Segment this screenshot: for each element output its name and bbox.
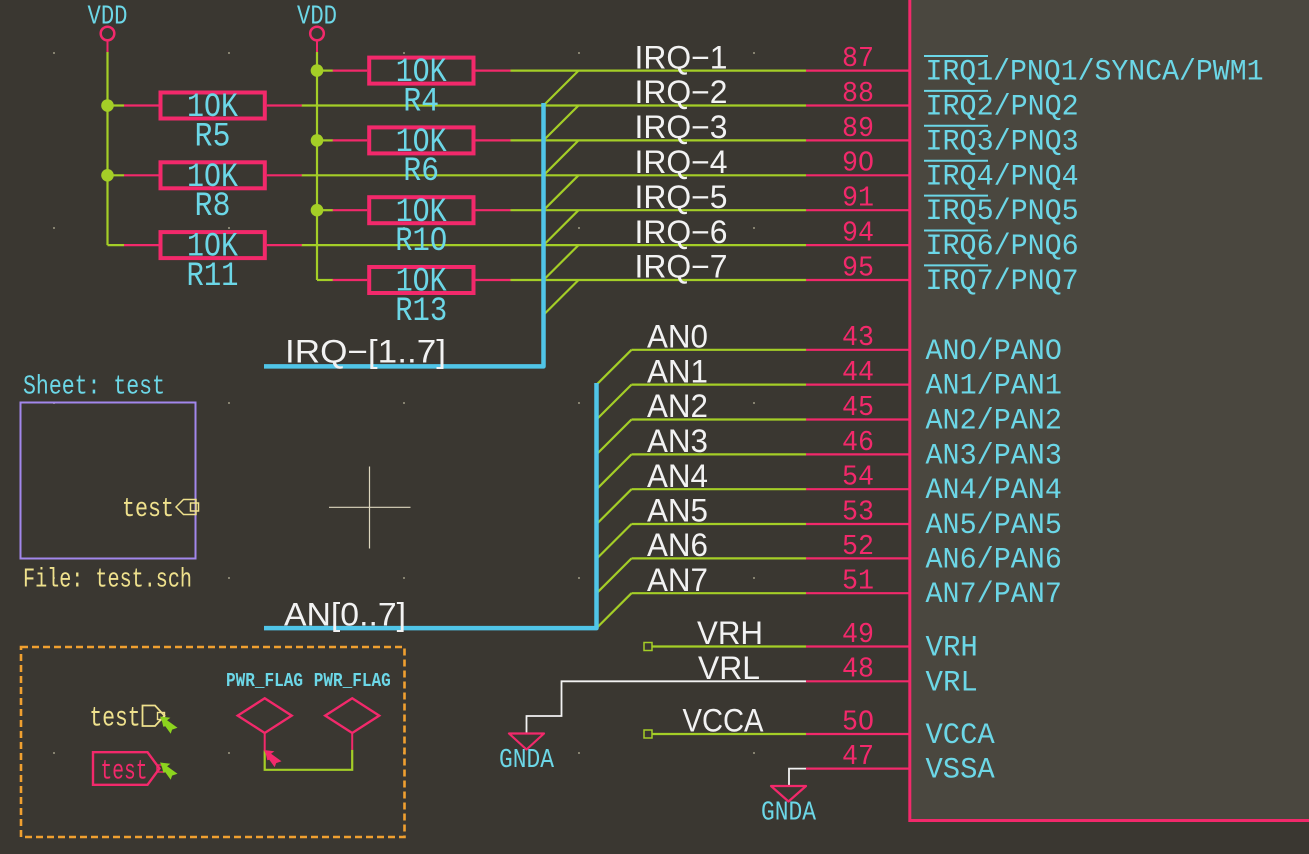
svg-text:47: 47 [842,740,874,773]
resistor R5 10K [124,89,302,156]
hierarchical sheet test [21,403,196,559]
wire IRQ-7 [511,279,807,281]
svg-text:44: 44 [842,356,874,389]
crosshair cursor [329,467,411,549]
svg-text:45: 45 [842,391,874,424]
svg-text:91: 91 [842,182,874,215]
pin 47 VSSA [806,740,995,788]
wire IRQ-4 [302,174,807,176]
wire VRH [652,645,806,647]
svg-text:IRQ2/PNQ2: IRQ2/PNQ2 [926,91,1079,125]
svg-text:AN5/PAN5: AN5/PAN5 [926,509,1062,543]
svg-text:AN3: AN3 [647,423,708,459]
pin 89 IRQ3/PNQ3 [806,112,1079,160]
wire IRQ-1 [511,69,807,71]
svg-text:AN3/PAN3: AN3/PAN3 [926,439,1062,473]
wire AN3 [632,453,807,455]
svg-text:VDD: VDD [88,3,128,33]
bus entry AN1 [597,385,632,420]
power symbol VDD (left) [88,3,128,52]
bus entry IRQ-7 [544,280,579,315]
svg-text:AN5: AN5 [647,493,708,529]
ground symbol GNDA (right) [761,786,817,829]
wire IRQ-2 [302,104,807,106]
pin 54 AN4/PAN4 [806,461,1062,509]
bus entry AN6 [597,558,632,593]
wire IRQ-6 [302,244,807,246]
pin 50 VCCA [806,705,995,753]
junction VDD/R5 [101,99,114,112]
resistor R10 10K [333,194,511,261]
svg-text:VRL: VRL [926,666,978,700]
pin 48 VRL [806,653,978,701]
bus entry IRQ-5 [544,210,579,245]
svg-text:AN4: AN4 [647,458,708,494]
resistor R11 10K [124,229,302,296]
cursor arrow (green, over global label) [160,763,178,780]
bus entry IRQ-3 [544,140,579,175]
bus entry AN4 [597,489,632,524]
svg-text:IRQ−5: IRQ−5 [635,179,728,215]
svg-text:AN2/PAN2: AN2/PAN2 [926,405,1062,439]
svg-text:9O: 9O [842,147,874,180]
resistor R8 10K [124,159,302,226]
bus entry AN0 [597,350,632,385]
pin 52 AN6/PAN6 [806,530,1062,578]
svg-text:95: 95 [842,251,874,284]
svg-text:R4: R4 [403,83,439,121]
power flag PWR_FLAG (right) [314,670,391,750]
wire VDD rail right [316,52,318,280]
pin 88 IRQ2/PNQ2 [806,77,1079,125]
svg-text:IRQ7/PNQ7: IRQ7/PNQ7 [926,265,1079,299]
svg-text:IRQ−2: IRQ−2 [635,74,728,110]
svg-text:VRH: VRH [926,632,978,666]
svg-text:test: test [101,757,148,788]
wire stub rail-R6 [317,139,333,141]
svg-text:AN1: AN1 [647,353,708,389]
svg-text:IRQ−6: IRQ−6 [635,214,728,250]
wire IRQ-3 [511,139,807,141]
svg-text:VRL: VRL [698,650,760,686]
svg-text:PWR_FLAG: PWR_FLAG [314,670,391,692]
svg-text:IRQ4/PNQ4: IRQ4/PNQ4 [926,160,1079,194]
wire AN7 [632,592,807,594]
wire AN1 [632,384,807,386]
power flag PWR_FLAG (left) [226,670,303,750]
svg-text:R13: R13 [395,293,447,331]
wire AN4 [632,488,807,490]
svg-text:R8: R8 [195,188,231,226]
svg-text:AN7: AN7 [647,562,708,598]
junction VDD/R8 [101,169,114,182]
svg-text:IRQ3/PNQ3: IRQ3/PNQ3 [926,125,1079,159]
svg-text:R5: R5 [195,118,231,156]
cursor arrow (green, over hierarchical label) [160,717,178,734]
wire stub rail-R13 [317,279,333,281]
cursor arrow (pink, on PWR_FLAG wire) [264,750,282,767]
svg-text:File: test.sch: File: test.sch [23,565,192,595]
wire stub rail-R8 [108,174,125,176]
resistor R6 10K [333,124,511,191]
bus entry IRQ-6 [544,245,579,280]
svg-text:51: 51 [842,565,874,598]
svg-text:IRQ−1: IRQ−1 [635,39,728,75]
wire VDD rail left [106,52,108,245]
bus entry IRQ-4 [544,175,579,210]
pin 95 IRQ7/PNQ7 [806,251,1079,299]
wire stub rail-R10 [317,209,333,211]
svg-text:GNDA: GNDA [499,746,555,776]
junction VDD/R6 [311,134,324,147]
wire stub rail-R5 [108,104,125,106]
bus entry AN2 [597,420,632,455]
svg-text:R6: R6 [403,153,439,191]
hierarchical label test [90,704,165,735]
svg-text:AN6/PAN6: AN6/PAN6 [926,543,1062,577]
sheet pin test [122,495,199,525]
wire IRQ-5 [511,209,807,211]
wire AN5 [632,523,807,525]
svg-text:IRQ−3: IRQ−3 [635,109,728,145]
resistor R13 10K [333,264,511,331]
wire between PWR_FLAGs [265,750,353,770]
svg-text:AN7/PAN7: AN7/PAN7 [926,578,1062,612]
pin 49 VRH [806,618,978,666]
bus entry IRQ-2 [544,106,579,141]
svg-text:IRQ6/PNQ6: IRQ6/PNQ6 [926,230,1079,264]
svg-text:AN1/PAN1: AN1/PAN1 [926,370,1062,404]
pin 90 IRQ4/PNQ4 [806,147,1079,195]
svg-text:GNDA: GNDA [761,799,817,829]
wire AN2 [632,418,807,420]
svg-text:5O: 5O [842,705,874,738]
wire VRL to GNDA [527,681,807,733]
wire VCCA [652,733,806,735]
svg-text:IRQ5/PNQ5: IRQ5/PNQ5 [926,195,1079,229]
svg-text:49: 49 [842,618,874,651]
svg-text:89: 89 [842,112,874,145]
pin 94 IRQ6/PNQ6 [806,217,1079,265]
wire AN0 [632,349,807,351]
pin 91 IRQ5/PNQ5 [806,182,1079,230]
power symbol VDD (right) [297,3,337,52]
svg-text:AN0: AN0 [647,319,708,355]
pin 51 AN7/PAN7 [806,565,1062,613]
selection box (dashed) [21,647,405,837]
svg-text:52: 52 [842,530,874,563]
unconnected end VCCA [644,730,652,738]
svg-text:46: 46 [842,426,874,459]
svg-text:ANO/PANO: ANO/PANO [926,335,1062,369]
bus entry AN3 [597,454,632,489]
svg-text:IRQ1/PNQ1/SYNCA/PWM1: IRQ1/PNQ1/SYNCA/PWM1 [926,56,1264,90]
svg-text:94: 94 [842,217,874,250]
svg-text:AN4/PAN4: AN4/PAN4 [926,474,1062,508]
svg-text:VSSA: VSSA [926,754,995,788]
svg-text:VRH: VRH [697,615,763,651]
resistor R4 10K [333,54,511,121]
svg-text:VCCA: VCCA [683,703,765,739]
svg-text:IRQ−4: IRQ−4 [635,144,728,180]
pin 87 IRQ1/PNQ1/SYNCA/PWM1 [806,42,1264,90]
bus AN[0..7] [264,383,597,628]
svg-text:88: 88 [842,77,874,110]
svg-text:AN2: AN2 [647,388,708,424]
svg-text:Sheet: test: Sheet: test [23,373,165,403]
svg-text:AN6: AN6 [647,527,708,563]
svg-text:IRQ−[1..7]: IRQ−[1..7] [285,334,446,370]
svg-text:54: 54 [842,461,874,494]
svg-text:43: 43 [842,321,874,354]
svg-text:R11: R11 [187,258,239,296]
svg-text:87: 87 [842,42,874,75]
global label test [93,752,164,787]
svg-text:VDD: VDD [297,3,337,33]
unconnected end VRH [644,643,652,651]
svg-text:48: 48 [842,653,874,686]
pin 53 AN5/PAN5 [806,495,1062,543]
ground symbol GNDA (left) [499,734,555,777]
junction VDD/R4 [311,64,324,77]
pin 45 AN2/PAN2 [806,391,1062,439]
pin 46 AN3/PAN3 [806,426,1062,474]
svg-text:test: test [90,704,141,735]
wire stub rail-R4 [317,69,333,71]
svg-text:test: test [122,495,174,525]
bus entry AN7 [597,593,632,628]
junction VDD/R10 [311,204,324,217]
wire VSSA to GNDA [789,769,806,786]
svg-text:IRQ−7: IRQ−7 [635,249,728,285]
bus IRQ-[1..7] [264,103,544,366]
wire stub rail-R11 [108,244,125,246]
pin 43 AN0/PAN0 [806,321,1062,369]
svg-text:R1O: R1O [395,223,447,261]
IC body U1 (MCU, right side, partially visible) [910,0,1309,821]
svg-text:AN[0..7]: AN[0..7] [284,597,406,633]
bus entry IRQ-1 [544,71,579,106]
wire AN6 [632,557,807,559]
svg-text:PWR_FLAG: PWR_FLAG [226,670,303,692]
bus entry AN5 [597,524,632,559]
pin 44 AN1/PAN1 [806,356,1062,404]
svg-text:VCCA: VCCA [926,719,995,753]
svg-text:53: 53 [842,495,874,528]
